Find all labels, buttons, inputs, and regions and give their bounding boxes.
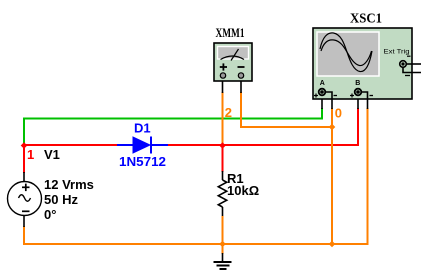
svg-text:2: 2: [225, 105, 232, 120]
oscilloscope XSC1 body: [313, 28, 412, 99]
XMM1 + pin stub: [222, 81, 224, 93]
svg-text:XSC1: XSC1: [350, 12, 382, 27]
wire net1 red: junction down to R1 top: [222, 145, 224, 172]
junction node 1 left (red diamond): [21, 142, 28, 149]
svg-text:1: 1: [27, 147, 34, 162]
channel A terminal: [314, 89, 337, 99]
junction node 1 at R1/XMM1+ (red diamond): [219, 142, 226, 149]
resistor R1 symbol: [218, 180, 226, 207]
wire net1 red: horizontal from node 1 to diode D1 anode: [23, 144, 118, 146]
svg-text:D1: D1: [134, 121, 151, 136]
diode D1 symbol: [117, 137, 168, 154]
wire net1 red: diode cathode across to scope channel B+ riser: [168, 108, 358, 145]
wire net0 orange: V1 bottom, ground rail, up to scope B-: [24, 108, 368, 244]
svg-text:A: A: [320, 80, 325, 87]
wire net0 orange: XMM1 + terminal down to red wire junction: [222, 92, 224, 146]
XMM1 - pin stub: [240, 81, 242, 93]
svg-text:50 Hz: 50 Hz: [44, 192, 78, 207]
wire net0 orange: R1 bottom to ground rail and ground symbol: [222, 216, 224, 254]
svg-text:Ext Trig: Ext Trig: [384, 49, 410, 56]
scope A- pin stub: [331, 99, 333, 109]
svg-text:1N5712: 1N5712: [119, 154, 166, 169]
scope B+ pin stub: [357, 99, 359, 109]
V1 bottom pin stub: [23, 215, 25, 227]
channel B terminal: [350, 89, 373, 99]
junction net0 ground rail at R1 (orange diamond): [219, 241, 226, 248]
ext trig terminal: [400, 56, 421, 75]
V1 top pin stub: [23, 172, 25, 182]
svg-text:0°: 0°: [44, 207, 56, 222]
wire net2 green: V1+ junction up and across to scope channel A+: [24, 108, 322, 146]
svg-text:10kΩ: 10kΩ: [227, 183, 259, 198]
wire net0 orange: scope A- down through to bottom ground rail: [331, 108, 333, 244]
R1 bottom pin stub: [222, 207, 224, 216]
junction net0 ground rail at scope A- column (orange diamond): [329, 241, 336, 248]
junction net0 at scope A- / XMM1- (orange diamond): [329, 124, 336, 131]
multimeter XMM1 body: [214, 43, 252, 81]
ac source V1 symbol: [8, 182, 42, 216]
ground pin stub: [222, 253, 224, 262]
scope B- pin stub: [367, 99, 369, 109]
R1 top pin stub: [222, 171, 224, 180]
svg-text:V1: V1: [44, 147, 60, 162]
svg-text:XMM1: XMM1: [216, 25, 245, 40]
wire net0 orange: XMM1 - terminal down, right to scope A- column: [241, 92, 332, 127]
wire net1 red: V1 top vertical to junction node 1: [23, 145, 25, 173]
svg-text:0: 0: [335, 106, 342, 121]
scope A+ pin stub: [321, 99, 323, 109]
svg-text:12 Vrms: 12 Vrms: [44, 177, 94, 192]
ground symbol: [214, 262, 232, 269]
svg-text:B: B: [355, 80, 360, 87]
